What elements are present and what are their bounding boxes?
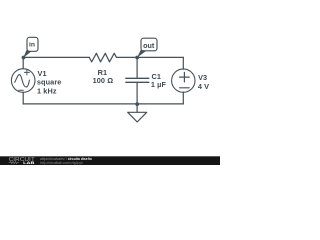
node in junction dot: [22, 56, 26, 60]
wire V3 bottom to bottom bus: [182, 92, 184, 104]
capacitor C1 top plate: [126, 77, 149, 79]
footer black bar: [0, 156, 220, 165]
svg-text:100 Ω: 100 Ω: [93, 76, 114, 85]
wire from resistor R1 through node out to V3 top: [117, 56, 184, 58]
V3 plus sign: [180, 72, 190, 82]
V3 minus sign: [180, 87, 190, 89]
svg-text:4 V: 4 V: [198, 82, 209, 91]
flag out box: [141, 38, 157, 51]
node out junction dot: [135, 56, 139, 60]
wire capacitor C1 bottom plate to bottom bus: [136, 82, 138, 104]
resistor R1 zigzag: [89, 53, 116, 62]
voltage source V3 circle: [172, 69, 195, 92]
wire node out down to capacitor C1 top plate: [136, 57, 138, 78]
ground stem: [136, 104, 138, 112]
svg-text:LAB: LAB: [23, 161, 35, 165]
wire top from node in to resistor R1: [24, 56, 90, 58]
svg-text:http://circuitlab.com/c/fg2pyh: http://circuitlab.com/c/fg2pyh: [40, 161, 83, 165]
V1 sine waveform: [15, 74, 30, 87]
wire node in down to V1 top: [22, 57, 24, 68]
ground triangle: [128, 112, 147, 122]
flag out tail: [137, 50, 146, 58]
wire V1 bottom to bottom bus: [22, 92, 24, 104]
V1 plus sign: [24, 70, 29, 75]
ground junction dot: [135, 102, 139, 106]
voltage source V1 circle: [11, 69, 35, 93]
capacitor C1 bottom plate: [126, 81, 149, 83]
V1 minus sign: [19, 89, 24, 91]
svg-text:1 µF: 1 µF: [151, 80, 167, 89]
wire V3 top to top bus: [182, 57, 184, 69]
logo resistor zigzag: [9, 162, 19, 164]
svg-text:in: in: [29, 42, 35, 49]
svg-text:square: square: [37, 77, 62, 86]
flag in box: [27, 37, 38, 51]
svg-text:V3: V3: [198, 73, 207, 82]
wire bottom bus: [23, 103, 183, 105]
flag in tail: [23, 50, 32, 58]
svg-text:out: out: [143, 41, 155, 50]
svg-text:1 kHz: 1 kHz: [37, 87, 57, 96]
